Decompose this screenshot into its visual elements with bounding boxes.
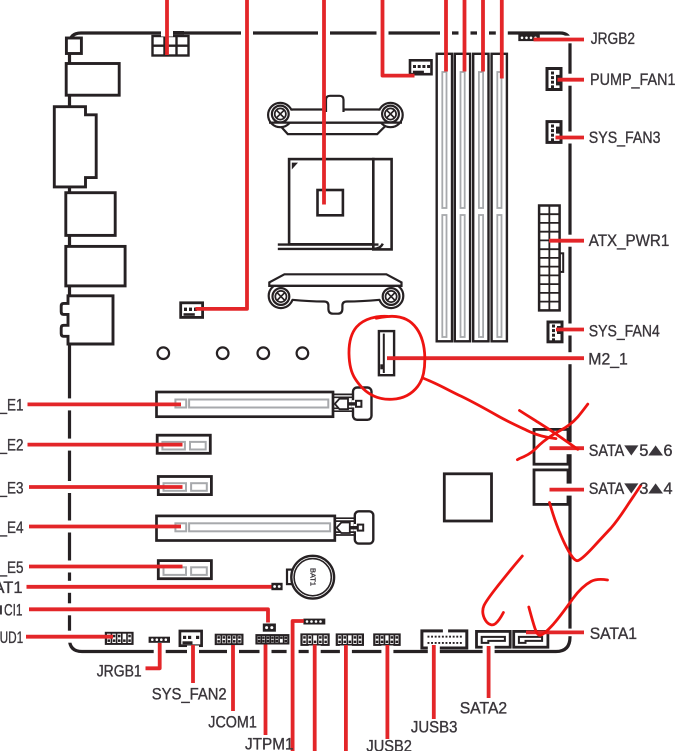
cpu socket — [289, 159, 391, 249]
svg-text:_E1: _E1 — [0, 397, 23, 415]
cpu top retention bracket — [268, 96, 403, 134]
svg-text:SATA1: SATA1 — [590, 625, 637, 643]
svg-text:SATA2: SATA2 — [460, 699, 508, 717]
leader JCOM1 — [231, 645, 235, 711]
labels left column — [0, 397, 24, 647]
connector JUSB grid C — [373, 633, 401, 646]
svg-text:SYS_FAN4: SYS_FAN4 — [589, 322, 660, 340]
leader JRGB1 — [146, 643, 160, 668]
PCI_E3 slot — [158, 477, 211, 495]
svg-text:CI1: CI1 — [4, 602, 23, 620]
battery BAT1 — [287, 556, 334, 599]
svg-text:UD1: UD1 — [0, 629, 23, 647]
scribble second diagonal — [520, 411, 578, 450]
socket base bar — [278, 244, 383, 249]
connector JUSB grid B — [336, 633, 364, 646]
leader raised 4-pin — [293, 621, 304, 751]
leader PUMP_FAN1 — [558, 78, 585, 82]
connector JUSB3 — [422, 629, 467, 648]
DIMM slots — [437, 54, 507, 342]
svg-text:6: 6 — [663, 442, 672, 460]
leader PCI_E3 — [29, 485, 183, 489]
leader SATA1 — [526, 631, 584, 635]
svg-text:JRGB1: JRGB1 — [97, 662, 142, 680]
leader JRGB2 — [534, 38, 585, 42]
svg-text:JTPM1: JTPM1 — [245, 736, 294, 751]
svg-text:JUSB2: JUSB2 — [366, 738, 412, 751]
scribble short diagonal — [517, 404, 587, 460]
PCI_E2 slot — [157, 435, 210, 453]
connector JCI1 — [263, 624, 276, 632]
SATA2 port — [477, 631, 511, 647]
leader JTPM1 — [264, 645, 268, 736]
jumper JBAT1 — [271, 583, 282, 590]
io port lan2 — [66, 246, 125, 286]
connector ATX_PWR1 — [539, 206, 563, 311]
PCI_E1 latch — [333, 388, 372, 420]
connector JTPM1 — [255, 634, 289, 644]
svg-text:PUMP_FAN1: PUMP_FAN1 — [590, 71, 676, 89]
M.2 slot M2_1 — [379, 331, 394, 375]
PCI_E5 slot — [158, 561, 211, 579]
svg-text:_E5: _E5 — [0, 559, 23, 577]
svg-text:SYS_FAN3: SYS_FAN3 — [589, 129, 661, 147]
leader DIMM3 — [481, 0, 485, 72]
fan header SYS_FAN2 — [180, 631, 202, 646]
svg-text:ATX_PWR1: ATX_PWR1 — [589, 232, 670, 250]
svg-text:JRGB2: JRGB2 — [591, 30, 635, 48]
screw top-right — [382, 106, 399, 123]
connector JRGB2 — [518, 35, 540, 42]
svg-text:BAT1: BAT1 — [308, 568, 317, 586]
SATA1 port — [514, 631, 548, 647]
io port small square — [66, 38, 81, 54]
leader BAT1 — [27, 585, 272, 589]
cpu bottom retention bracket — [269, 274, 404, 313]
leader M2_1 — [387, 356, 584, 360]
io port video stepped block — [54, 107, 96, 187]
screw top-left — [272, 106, 289, 123]
connector CPU_PWR1 — [153, 36, 189, 56]
scribble swoosh at SATA1 — [529, 579, 608, 635]
leader DIMM4 — [500, 0, 504, 79]
mounting holes — [158, 347, 309, 359]
leader SATA2 — [487, 646, 491, 698]
svg-text:SYS_FAN2: SYS_FAN2 — [152, 685, 227, 703]
svg-text:_E3: _E3 — [0, 479, 23, 497]
leader DIMM2 — [463, 0, 467, 72]
svg-text:M2_1: M2_1 — [588, 350, 628, 368]
screw bottom-right — [383, 288, 400, 305]
svg-text:5: 5 — [639, 442, 648, 460]
label JCI1 clipped glyph sliver — [0, 605, 2, 614]
leader JCI1 — [29, 609, 268, 622]
fan header (label cut at top) — [181, 303, 203, 318]
svg-text:_E4: _E4 — [0, 519, 23, 537]
leader JUSB2 — [385, 645, 389, 739]
leader JUSB grid A — [313, 645, 317, 751]
connector JAUD1 — [105, 632, 134, 645]
motherboard outline — [70, 33, 571, 652]
svg-text:SATA: SATA — [589, 442, 625, 460]
svg-text:JUSB3: JUSB3 — [411, 719, 458, 737]
scribble check above SATA2 — [483, 556, 523, 625]
leader SATA 3/4 — [550, 488, 585, 492]
leader SYS_FAN4 — [556, 328, 584, 332]
leader PCI_E5 — [29, 565, 183, 569]
leader fan header x247 — [195, 0, 247, 309]
io port usb block — [66, 64, 119, 96]
svg-text:_E2: _E2 — [0, 437, 23, 455]
scribble check under SATA34 — [550, 485, 641, 560]
svg-text:JCOM1: JCOM1 — [208, 713, 256, 731]
leader PCI_E1 — [28, 402, 182, 406]
SATA box 5/6 — [534, 429, 568, 464]
leader SYS_FAN3 — [556, 136, 585, 140]
connector 4-pin raised — [303, 619, 325, 625]
hand-drawn scribbles — [349, 316, 641, 635]
PCI_E4 latch — [335, 511, 374, 543]
svg-text:AT1: AT1 — [0, 579, 23, 597]
leader CPU_PWR1 — [165, 0, 169, 55]
labels bottom — [97, 662, 508, 751]
fan header PUMP_FAN1 — [547, 69, 561, 90]
svg-text:4: 4 — [663, 480, 672, 498]
fan header SYS_FAN3 — [547, 122, 561, 143]
labels right column — [588, 30, 675, 643]
leader DIMM1 — [444, 0, 448, 72]
io port lan1 — [66, 193, 115, 236]
fan header SYS_FAN4 — [548, 322, 562, 342]
screw bottom-left — [273, 288, 290, 305]
connector JUSB grid A — [300, 633, 329, 646]
PCI_E4 slot — [157, 516, 335, 541]
io port audio block — [61, 296, 113, 344]
leader CPU_FAN1 — [383, 0, 415, 76]
leader SYS_FAN2 — [191, 645, 195, 683]
SATA box 3/4 — [534, 470, 568, 505]
leader cpu socket — [322, 0, 326, 205]
leader JAUD1 — [26, 635, 113, 639]
white gaps where leaders cross board edges — [64, 29, 578, 658]
leader SATA 5/6 — [550, 446, 585, 450]
leader JUSB3 — [432, 645, 436, 719]
socket corner triangle — [292, 163, 298, 170]
connector JRGB1 — [149, 637, 170, 643]
leader JUSB grid B — [344, 645, 348, 751]
PCI_E1 slot — [157, 392, 334, 417]
leader ATX_PWR1 — [549, 239, 584, 243]
svg-text:3: 3 — [639, 480, 648, 498]
fan header CPU_FAN1 — [410, 60, 432, 74]
chipset — [444, 474, 491, 521]
scribble circle around M2_1 — [349, 316, 425, 399]
scribble long diagonal — [424, 379, 556, 439]
connector JCOM1 — [215, 634, 244, 645]
svg-text:SATA: SATA — [589, 480, 625, 498]
leader PCI_E2 — [28, 443, 183, 447]
leader PCI_E4 — [29, 525, 181, 529]
